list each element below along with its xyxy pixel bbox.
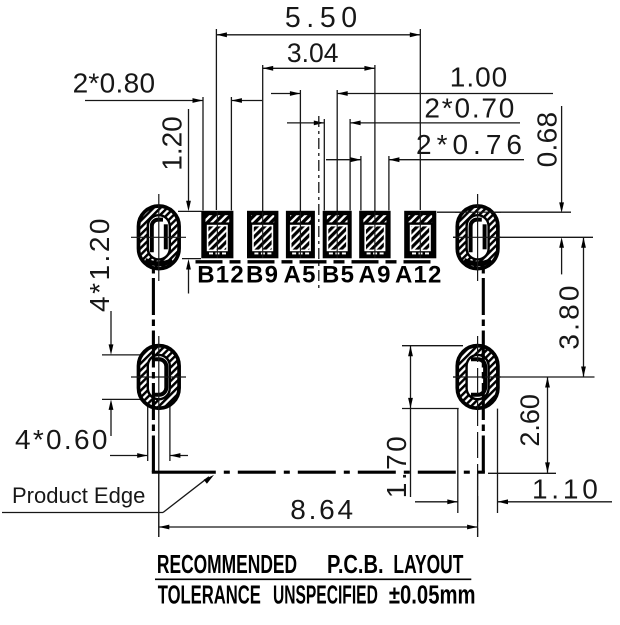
svg-text:1.00: 1.00 — [450, 62, 509, 93]
svg-text:1.70: 1.70 — [381, 434, 412, 499]
svg-text:2*0.70: 2*0.70 — [424, 93, 516, 124]
center mark mid-left oval — [158, 336, 160, 537]
dimension 4*0.60 (slot width) — [147, 402, 149, 461]
svg-text:0.68: 0.68 — [532, 112, 563, 168]
dimension 5.50 (outer pad centers) — [215, 29, 217, 210]
product edge left side — [152, 268, 155, 472]
pad B12 — [201, 211, 233, 258]
pad A9 — [359, 211, 390, 258]
extension line pad B9 center — [262, 212, 264, 258]
svg-text:5.50: 5.50 — [285, 2, 363, 34]
svg-text:3.04: 3.04 — [287, 38, 339, 68]
mounting slot top-left — [139, 206, 180, 269]
svg-text:8.64: 8.64 — [290, 494, 356, 525]
extension line pad A12 center — [419, 212, 421, 258]
extension line pad A5 center — [299, 212, 301, 258]
svg-text:LAYOUT: LAYOUT — [393, 549, 463, 578]
svg-text:3.80: 3.80 — [554, 282, 585, 349]
svg-text:4*0.60: 4*0.60 — [15, 424, 110, 455]
svg-text:B12: B12 — [197, 261, 245, 288]
center mark top-left oval — [158, 194, 160, 281]
svg-text:UNSPECIFIED: UNSPECIFIED — [273, 581, 378, 610]
svg-text:1.20: 1.20 — [157, 116, 188, 171]
svg-text:RECOMMENDED: RECOMMENDED — [157, 549, 297, 578]
dimension 1.10 (oval width) — [457, 409, 459, 513]
svg-text:2.60: 2.60 — [515, 394, 545, 447]
svg-text:±0.05mm: ±0.05mm — [389, 580, 476, 609]
dimension 3.04 (B9-A9 centers) — [262, 65, 264, 258]
svg-text:Product Edge: Product Edge — [12, 483, 145, 508]
title underline — [155, 578, 471, 580]
svg-text:B5: B5 — [322, 261, 355, 288]
centerline of connector — [318, 116, 320, 292]
pad B5 — [323, 211, 352, 258]
svg-text:1.10: 1.10 — [532, 473, 602, 504]
dimension 2*0.80 (pad B12 width) — [202, 97, 204, 210]
svg-text:4*1.20: 4*1.20 — [84, 216, 115, 312]
svg-text:TOLERANCE: TOLERANCE — [158, 580, 261, 610]
dimension 2*0.76 (pad A9 width) — [360, 156, 362, 210]
center mark top-right oval — [477, 194, 479, 281]
pad A5 — [286, 211, 315, 258]
center mark mid-right oval — [477, 336, 479, 537]
svg-text:A12: A12 — [395, 261, 443, 288]
dimension 4*1.20 (slot length) — [102, 354, 146, 356]
pad A12 — [404, 211, 436, 258]
svg-text:P.C.B.: P.C.B. — [327, 549, 384, 578]
svg-text:A9: A9 — [359, 261, 392, 288]
mounting slot mid-right — [457, 346, 498, 409]
dimension 2*0.70 (pad B5 width) — [323, 119, 325, 210]
dimension 3.80 — [583, 237, 585, 377]
extension line pad A9 center — [374, 212, 376, 258]
svg-text:A5: A5 — [284, 261, 317, 288]
mounting slot mid-left — [139, 346, 180, 409]
extension line pad B12 center — [216, 212, 218, 258]
dimension 1.20 (pad height) — [178, 210, 202, 212]
dimension 8.64 (oval centers) — [158, 474, 160, 537]
dimension 0.68 — [437, 211, 571, 213]
svg-text:B9: B9 — [246, 261, 279, 288]
svg-text:2*0.76: 2*0.76 — [416, 129, 527, 160]
dimension 1.00 (A5-B5 centers) — [299, 90, 301, 258]
extension line pad B5 center — [336, 212, 338, 258]
pad B9 — [247, 211, 278, 258]
product edge right side — [482, 268, 485, 472]
leader Product Edge — [2, 512, 163, 514]
product edge bottom — [152, 471, 485, 474]
hidden connector edge (dashed) under pads — [196, 260, 438, 263]
dimension 1.70 (oval height) — [402, 345, 463, 347]
svg-text:2*0.80: 2*0.80 — [73, 68, 156, 99]
dimension 2.60 — [453, 376, 595, 378]
mounting slot top-right — [457, 206, 498, 269]
